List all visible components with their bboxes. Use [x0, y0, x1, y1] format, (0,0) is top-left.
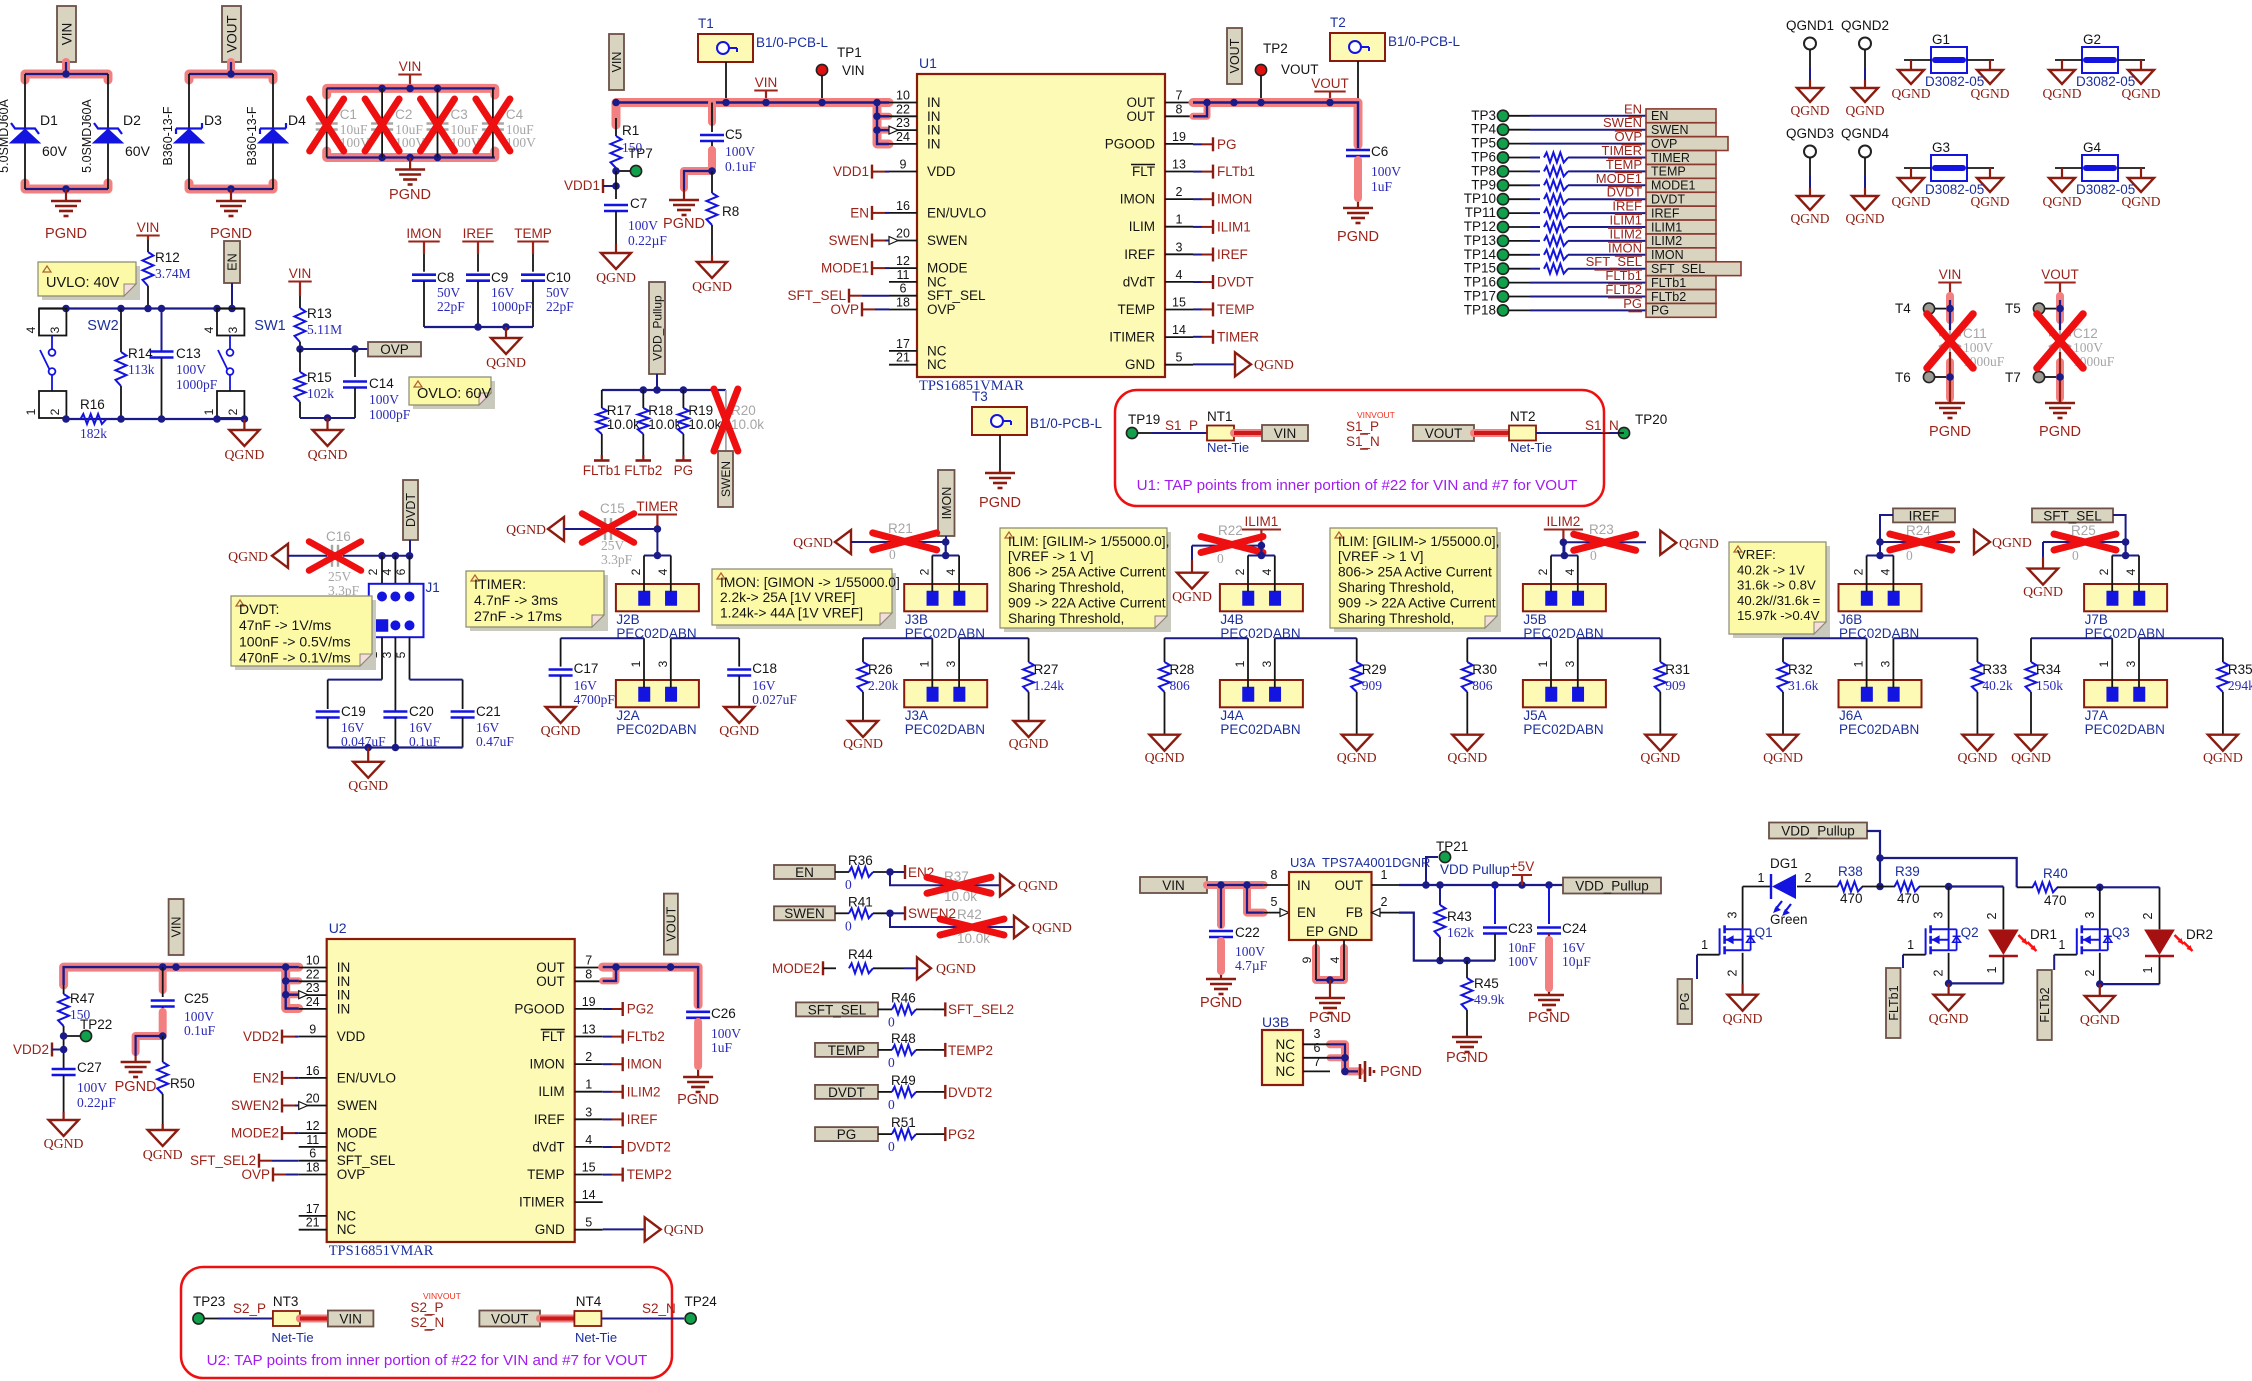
svg-text:VIN: VIN — [755, 75, 778, 90]
svg-text:IN: IN — [927, 109, 941, 124]
ground QGND (R32) — [1763, 735, 1803, 765]
svg-text:FLTb1: FLTb1 — [1217, 164, 1255, 179]
wire D3/D4 loop — [189, 62, 273, 193]
net label VINVOUT S1_P S1_N — [1346, 410, 1395, 449]
testpoint QGND4 — [1841, 126, 1890, 226]
svg-text:S2_P: S2_P — [233, 1301, 266, 1316]
svg-text:R51: R51 — [891, 1115, 916, 1130]
svg-text:DG1: DG1 — [1770, 856, 1798, 871]
svg-text:C8: C8 — [437, 270, 454, 285]
connector J1 — [369, 580, 440, 637]
wire J4B pins — [1233, 542, 1275, 592]
LED DR1 (red) — [1989, 927, 2057, 956]
net label TEMP2 (U2 right) — [603, 1167, 672, 1182]
wire FB network — [1372, 895, 1496, 964]
svg-text:EN: EN — [1651, 109, 1668, 123]
svg-text:OUT: OUT — [1127, 109, 1156, 124]
wire VIN rail to U1 — [612, 99, 889, 144]
svg-text:VDD2: VDD2 — [243, 1029, 279, 1044]
svg-text:2: 2 — [1536, 568, 1550, 575]
svg-text:IMON: IMON — [529, 1057, 564, 1072]
svg-text:8: 8 — [585, 967, 592, 981]
svg-text:TP3: TP3 — [1471, 108, 1496, 123]
ground PGND (U3B sideways) — [1360, 1061, 1422, 1082]
svg-text:TP24: TP24 — [685, 1294, 718, 1309]
ground QGND (R29) — [1337, 735, 1377, 765]
svg-text:16V: 16V — [341, 720, 365, 735]
svg-text:QGND: QGND — [1791, 103, 1830, 118]
wire U2 VOUT rail — [603, 963, 698, 1008]
net label SWEN2 (U2 left) — [231, 1098, 299, 1113]
op-amp U3B (NC) — [1262, 1014, 1303, 1085]
svg-text:14: 14 — [582, 1188, 596, 1202]
svg-text:PGND: PGND — [1337, 229, 1379, 245]
wire UVLO bus — [39, 305, 244, 313]
resistor R49 — [878, 1073, 933, 1112]
ground PGND (C12) — [2039, 398, 2081, 440]
svg-text:TP18: TP18 — [1464, 302, 1496, 317]
net label MODE1 (U1 left) — [821, 261, 889, 276]
note ILIM second — [1330, 528, 1501, 632]
svg-text:SW1: SW1 — [254, 318, 285, 334]
svg-text:VREF:: VREF: — [1737, 547, 1776, 562]
svg-text:C4: C4 — [506, 107, 524, 122]
wire J1 top pins — [366, 552, 413, 584]
ground QGND (C7) — [596, 244, 636, 285]
net label VIN (bulk cap) — [1938, 267, 1961, 300]
net label IMON (U2 right) — [603, 1057, 662, 1072]
testpoint T6 — [1895, 370, 1950, 385]
svg-text:909: 909 — [1362, 678, 1383, 693]
svg-text:PGND: PGND — [45, 226, 87, 242]
svg-text:IMON: [GIMON -> 1/55000.0]: IMON: [GIMON -> 1/55000.0] — [720, 575, 900, 590]
svg-text:[VREF -> 1 V]: [VREF -> 1 V] — [1008, 549, 1094, 564]
net S2_P label — [218, 1301, 273, 1319]
svg-text:11: 11 — [306, 1133, 319, 1147]
resistor R19 — [678, 390, 722, 458]
port IREF (box) — [1893, 508, 1955, 523]
svg-text:47nF -> 1V/ms: 47nF -> 1V/ms — [239, 617, 331, 633]
testpoint TP5 row OVP — [1471, 129, 1728, 151]
svg-text:5: 5 — [1176, 351, 1183, 365]
svg-text:G4: G4 — [2083, 140, 2102, 155]
resistor R39 — [1880, 864, 1949, 906]
svg-text:25V: 25V — [328, 569, 352, 584]
svg-text:VIN: VIN — [399, 59, 422, 74]
arrow pin20 SWEN (U1) — [889, 237, 898, 245]
svg-text:B1/0-PCB-L: B1/0-PCB-L — [1030, 416, 1103, 431]
resistor R50 — [157, 1036, 195, 1130]
svg-text:R22: R22 — [1218, 523, 1243, 538]
svg-text:4: 4 — [24, 326, 38, 333]
svg-text:G3: G3 — [1932, 140, 1950, 155]
port IMON (vertical) — [938, 470, 955, 542]
svg-text:D4: D4 — [288, 112, 306, 128]
svg-text:T3: T3 — [972, 389, 988, 404]
net-tie NT3 — [272, 1294, 314, 1345]
resistor R40 — [2017, 866, 2100, 908]
svg-text:9: 9 — [1300, 956, 1314, 963]
svg-text:C24: C24 — [1562, 921, 1587, 936]
svg-text:R23: R23 — [1589, 522, 1614, 537]
svg-text:QGND: QGND — [1992, 535, 2032, 550]
svg-text:24: 24 — [306, 995, 320, 1009]
svg-text:IMON: IMON — [1217, 192, 1252, 207]
port VIN (NT1) — [1262, 425, 1308, 441]
port TEMP (row) — [815, 1043, 878, 1058]
svg-text:GND: GND — [1328, 924, 1358, 939]
svg-text:TEMP2: TEMP2 — [627, 1167, 672, 1182]
svg-text:TEMP: TEMP — [1606, 157, 1642, 172]
resistor R21 (DNP) — [851, 521, 946, 562]
wire Q2 source / DR1 return — [1929, 953, 2004, 1026]
svg-text:QGND: QGND — [1009, 736, 1049, 751]
svg-text:J5B: J5B — [1523, 612, 1546, 627]
svg-text:ITIMER: ITIMER — [519, 1195, 565, 1210]
svg-text:5.0SMDJ60A: 5.0SMDJ60A — [0, 99, 11, 173]
svg-text:IN: IN — [337, 974, 351, 989]
svg-text:19: 19 — [1172, 130, 1186, 144]
svg-text:VDD: VDD — [337, 1029, 366, 1044]
port SFT_SEL (box) — [2032, 508, 2113, 523]
svg-text:J6B: J6B — [1839, 612, 1862, 627]
svg-text:2: 2 — [629, 568, 643, 575]
svg-text:TP12: TP12 — [1464, 219, 1496, 234]
wire J6A pins — [1852, 638, 1894, 687]
svg-text:SFT_SEL: SFT_SEL — [808, 1002, 867, 1017]
svg-text:TIMER: TIMER — [1602, 143, 1642, 158]
fuse G2 D3082-05 — [2043, 32, 2161, 101]
svg-text:1: 1 — [1233, 660, 1247, 667]
svg-text:PGOOD: PGOOD — [514, 1001, 565, 1016]
svg-text:100V: 100V — [1371, 164, 1401, 179]
wire U1 pin stubs — [889, 89, 1193, 373]
wire Q3/DR2 node — [2096, 884, 2160, 930]
svg-text:4: 4 — [380, 568, 394, 575]
net label ILIM2 — [1544, 514, 1583, 542]
junction SFT_SEL — [2125, 542, 2127, 556]
net label VDD2 (U2 left) — [243, 1029, 299, 1044]
net label VINVOUT S2_P S2_N — [411, 1291, 461, 1330]
svg-text:6: 6 — [309, 1147, 316, 1161]
junction IREF — [1879, 542, 1881, 556]
port SFT_SEL (row) — [796, 1002, 878, 1017]
svg-text:24: 24 — [896, 130, 910, 144]
svg-text:IN: IN — [1297, 878, 1311, 893]
capacitor C22 — [1209, 885, 1268, 975]
ground QGND (R24) — [1947, 530, 2032, 554]
svg-text:C6: C6 — [1371, 144, 1388, 159]
svg-text:R16: R16 — [80, 397, 105, 412]
port EN (top) — [224, 241, 240, 309]
svg-text:C3: C3 — [451, 107, 468, 122]
svg-text:OVP: OVP — [830, 302, 859, 317]
svg-text:23: 23 — [896, 116, 910, 130]
svg-text:QGND: QGND — [2203, 750, 2243, 765]
svg-text:1: 1 — [2097, 660, 2111, 667]
svg-text:16V: 16V — [409, 720, 433, 735]
svg-text:TP6: TP6 — [1471, 150, 1496, 165]
svg-text:3: 3 — [1563, 660, 1577, 667]
svg-text:PG: PG — [1678, 992, 1692, 1010]
svg-text:0.1uF: 0.1uF — [725, 159, 757, 174]
svg-text:FLTb1: FLTb1 — [1651, 276, 1686, 290]
net stub FLTb1 — [583, 455, 621, 478]
svg-text:DR1: DR1 — [2030, 927, 2057, 942]
wire J6B pins — [1852, 542, 1894, 592]
svg-text:SWEN: SWEN — [784, 906, 825, 921]
net-tie NT1 — [1207, 409, 1249, 455]
svg-text:Q1: Q1 — [1755, 925, 1773, 940]
svg-text:40.2k: 40.2k — [1982, 678, 2013, 693]
svg-text:806-> 25A Active Current: 806-> 25A Active Current — [1338, 565, 1492, 580]
net label VIN (R13) — [288, 266, 311, 308]
svg-text:R12: R12 — [155, 250, 180, 265]
svg-text:R21: R21 — [888, 521, 913, 536]
svg-text:QGND: QGND — [486, 355, 526, 370]
svg-text:2: 2 — [917, 568, 931, 575]
testpoint TP6 row TIMER — [1471, 143, 1716, 165]
svg-text:U1: U1 — [919, 55, 937, 71]
testpoint T5 — [2005, 301, 2060, 316]
svg-text:100V: 100V — [1508, 954, 1538, 969]
svg-text:PGND: PGND — [2039, 424, 2081, 440]
note ILIM first — [1000, 528, 1171, 632]
svg-text:1: 1 — [1985, 966, 1999, 973]
J3B header PEC02DABN — [904, 584, 987, 641]
testpoint TP16 row FLTb1 — [1464, 268, 1716, 290]
svg-text:0: 0 — [1590, 548, 1597, 563]
svg-text:U1: TAP points from inner port: U1: TAP points from inner portion of #22… — [1137, 477, 1578, 494]
svg-text:3.3pF: 3.3pF — [601, 552, 633, 567]
svg-text:OUT: OUT — [1127, 95, 1156, 110]
svg-text:2: 2 — [1852, 568, 1866, 575]
ground QGND (R8) — [692, 255, 732, 294]
svg-text:QGND: QGND — [1846, 103, 1885, 118]
port VIN (NT3) — [328, 1311, 374, 1327]
svg-text:Sharing Threshold,: Sharing Threshold, — [1008, 611, 1124, 626]
resistor R27 — [959, 637, 1029, 639]
svg-text:IN: IN — [927, 123, 941, 138]
svg-text:470: 470 — [2044, 893, 2067, 908]
svg-text:S2_N: S2_N — [411, 1315, 445, 1330]
capacitor C4 (DNP) — [476, 88, 536, 157]
svg-text:1uF: 1uF — [1371, 179, 1393, 194]
port VDD_Pullup (status) — [1769, 823, 1867, 839]
resistor R24 (DNP) — [1880, 523, 1952, 563]
svg-text:SFT_SEL2: SFT_SEL2 — [190, 1153, 256, 1168]
testpoint TP2 — [1255, 41, 1318, 103]
svg-text:2: 2 — [48, 408, 62, 415]
ground QGND (R21) — [793, 530, 851, 554]
svg-text:2: 2 — [1932, 969, 1946, 976]
svg-text:22: 22 — [306, 967, 320, 981]
svg-text:1: 1 — [1852, 660, 1866, 667]
diode D2 — [80, 99, 151, 173]
svg-text:R48: R48 — [891, 1031, 916, 1046]
resistor R1 — [611, 118, 643, 171]
svg-text:R49: R49 — [891, 1073, 916, 1088]
junction ILIM1 — [1258, 542, 1266, 556]
svg-text:QGND: QGND — [2043, 86, 2082, 101]
svg-text:2: 2 — [2083, 969, 2097, 976]
wire C5-PGND elbow — [684, 150, 716, 190]
port VOUT (NT4) — [479, 1311, 540, 1327]
svg-text:NT1: NT1 — [1207, 409, 1233, 424]
svg-text:PGOOD: PGOOD — [1105, 136, 1156, 151]
svg-text:0: 0 — [888, 1097, 895, 1112]
svg-text:C21: C21 — [476, 704, 501, 719]
fuse G4 D3082-05 — [2043, 140, 2161, 209]
svg-text:OVP: OVP — [337, 1167, 366, 1182]
svg-text:R15: R15 — [307, 370, 332, 385]
net label PG2 (U2 right) — [603, 1002, 654, 1017]
ground QGND (U1 GND pin) — [1193, 352, 1294, 376]
svg-text:909: 909 — [1665, 678, 1686, 693]
svg-text:B360-13-F: B360-13-F — [161, 106, 175, 165]
svg-text:R30: R30 — [1472, 662, 1497, 677]
port VOUT (top-left) — [222, 6, 241, 62]
svg-text:QGND: QGND — [2080, 1012, 2120, 1027]
svg-text:VOUT: VOUT — [1425, 426, 1463, 441]
svg-text:QGND: QGND — [1971, 86, 2010, 101]
svg-text:S2_N: S2_N — [642, 1301, 676, 1316]
svg-text:J2A: J2A — [616, 708, 639, 723]
resistor R15 — [295, 370, 335, 418]
net label VDD1 — [564, 171, 620, 199]
svg-text:R46: R46 — [891, 990, 916, 1005]
resistor R48 — [878, 1031, 933, 1070]
svg-text:Green: Green — [1770, 912, 1808, 927]
net label FLTb2 (U2 right) — [603, 1029, 665, 1044]
svg-text:5: 5 — [394, 651, 408, 658]
svg-text:QGND: QGND — [1640, 750, 1680, 765]
svg-text:ILIM: [GILIM-> 1/55000.0],: ILIM: [GILIM-> 1/55000.0], — [1008, 534, 1169, 549]
diode D3 — [161, 106, 222, 165]
svg-text:QGND: QGND — [719, 723, 759, 738]
wire LDO VIN — [1207, 868, 1289, 925]
svg-text:MODE2: MODE2 — [772, 961, 820, 976]
svg-text:13: 13 — [1172, 158, 1186, 172]
svg-text:PG: PG — [837, 1127, 857, 1142]
svg-text:8: 8 — [1271, 868, 1278, 882]
resistor R17 — [596, 390, 640, 458]
port VIN (U2 input) — [169, 899, 184, 955]
testpoint TP13 row ILIM2 — [1464, 226, 1716, 248]
svg-text:10: 10 — [306, 954, 320, 968]
svg-text:QGND: QGND — [1957, 750, 1997, 765]
svg-text:C18: C18 — [752, 661, 777, 676]
svg-text:4: 4 — [585, 1133, 592, 1147]
svg-text:J4A: J4A — [1220, 708, 1243, 723]
svg-text:EN: EN — [850, 205, 869, 220]
svg-text:QGND: QGND — [1791, 211, 1830, 226]
svg-text:FLTb1: FLTb1 — [1605, 268, 1642, 283]
wire U2 pin stubs — [299, 954, 603, 1238]
svg-text:QGND: QGND — [1679, 536, 1719, 551]
svg-text:SWEN: SWEN — [927, 233, 968, 248]
svg-text:100V: 100V — [77, 1080, 107, 1095]
ground QGND (R27) — [1009, 721, 1049, 751]
net S1_N label — [1536, 418, 1619, 433]
ground QGND (R33) — [1957, 735, 1997, 765]
testpoint TP9 row MODE1 — [1471, 171, 1716, 193]
svg-text:9: 9 — [309, 1023, 316, 1037]
svg-text:U3A: U3A — [1290, 855, 1316, 870]
svg-text:VIN: VIN — [1939, 267, 1962, 282]
svg-text:VDD_Pullup: VDD_Pullup — [1575, 878, 1649, 893]
svg-text:QGND2: QGND2 — [1841, 18, 1889, 33]
svg-text:1000pF: 1000pF — [176, 377, 218, 392]
testpoint TP4 row SWEN — [1471, 115, 1716, 137]
svg-text:UVLO: 40V: UVLO: 40V — [46, 275, 120, 291]
svg-text:18: 18 — [306, 1161, 320, 1175]
svg-text:1: 1 — [2141, 966, 2155, 973]
svg-text:QGND: QGND — [143, 1147, 183, 1162]
svg-text:16: 16 — [306, 1064, 320, 1078]
svg-text:TP14: TP14 — [1464, 247, 1497, 262]
svg-text:FLTb2: FLTb2 — [1651, 290, 1686, 304]
svg-text:TEMP: TEMP — [514, 226, 552, 241]
svg-text:J2B: J2B — [616, 612, 639, 627]
port PG — [1678, 955, 1698, 1024]
net label DVDT (U1 right) — [1193, 275, 1254, 290]
J4B header PEC02DABN — [1220, 584, 1303, 641]
J6B header PEC02DABN — [1839, 584, 1922, 641]
resistor R28 — [1165, 637, 1249, 639]
svg-text:R38: R38 — [1838, 864, 1863, 879]
svg-text:PGND: PGND — [115, 1079, 157, 1095]
svg-text:TP2: TP2 — [1263, 41, 1288, 56]
capacitor C11 (DNP polarized) — [1927, 314, 2005, 369]
svg-text:QGND: QGND — [596, 270, 636, 285]
op-amp U1 TPS16851VMAR body — [917, 55, 1165, 394]
svg-text:R14: R14 — [128, 346, 153, 361]
wire LDO output rail — [1372, 868, 1564, 889]
resistor R26 — [863, 637, 932, 639]
svg-text:PEC02DABN: PEC02DABN — [616, 722, 696, 737]
testpoint QGND3 — [1786, 126, 1834, 226]
svg-text:16V: 16V — [752, 678, 776, 693]
svg-text:EN: EN — [1297, 905, 1316, 920]
svg-text:SFT_SEL2: SFT_SEL2 — [948, 1002, 1014, 1017]
capacitor C24 — [1537, 885, 1591, 992]
svg-text:1: 1 — [1758, 871, 1765, 885]
net label TEMP (U1 right) — [1193, 302, 1255, 317]
svg-text:0: 0 — [2072, 548, 2079, 563]
ground QGND (SW1) — [224, 419, 264, 462]
junction IMON — [942, 538, 950, 555]
net S2_N label — [601, 1301, 684, 1319]
ground QGND (R35) — [2203, 735, 2243, 765]
svg-text:IN: IN — [337, 1001, 351, 1016]
svg-text:R39: R39 — [1895, 864, 1920, 879]
svg-text:Sharing Threshold,: Sharing Threshold, — [1338, 580, 1454, 595]
svg-text:VIN: VIN — [170, 917, 184, 938]
svg-text:100V: 100V — [176, 362, 206, 377]
svg-text:3: 3 — [226, 326, 240, 333]
svg-text:QGND: QGND — [692, 279, 732, 294]
svg-text:NT2: NT2 — [1510, 409, 1536, 424]
svg-text:15: 15 — [582, 1161, 596, 1175]
wire J7B pins — [2097, 542, 2139, 592]
resistor R42 (DNP) to QGND — [890, 907, 1072, 946]
svg-text:0.22µF: 0.22µF — [77, 1095, 116, 1110]
resistor R20 (DNP) — [714, 389, 764, 451]
note IMON — [712, 569, 900, 629]
svg-text:J7B: J7B — [2085, 612, 2108, 627]
svg-text:2: 2 — [1726, 969, 1740, 976]
